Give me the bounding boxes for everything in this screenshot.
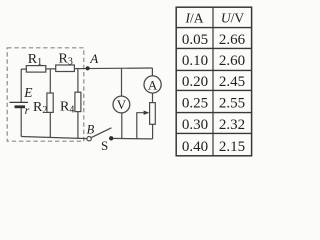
svg-text:U/V: U/V [221,11,245,26]
svg-text:V: V [117,97,127,112]
svg-text:0.05: 0.05 [182,32,208,48]
svg-text:2.55: 2.55 [219,95,245,111]
svg-text:2.15: 2.15 [219,139,245,155]
svg-text:0.10: 0.10 [182,53,208,69]
svg-text:2.60: 2.60 [219,53,245,69]
svg-text:S: S [101,138,108,153]
svg-text:2.45: 2.45 [219,74,245,90]
svg-text:E: E [23,85,33,100]
svg-text:0.40: 0.40 [182,139,208,155]
svg-text:0.25: 0.25 [182,95,208,111]
svg-text:r: r [25,103,30,117]
svg-text:I/A: I/A [185,11,204,26]
svg-text:0.30: 0.30 [182,117,208,133]
svg-text:2.66: 2.66 [219,32,246,48]
svg-text:A: A [148,77,158,92]
svg-text:A: A [89,51,98,66]
svg-text:B: B [87,122,95,136]
svg-text:2.32: 2.32 [219,117,245,133]
svg-text:0.20: 0.20 [182,74,208,90]
